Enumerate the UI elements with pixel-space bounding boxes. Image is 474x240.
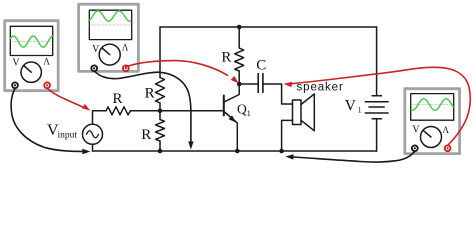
svg-text:Q: Q — [237, 101, 247, 116]
transistor Q1 collector lead — [225, 84, 240, 102]
battery V1 plates — [372, 95, 381, 97]
battery V1 bottom wire — [376, 119, 378, 151]
speaker cone — [301, 94, 314, 131]
transistor Q1 emitter lead — [225, 112, 238, 151]
speaker box — [293, 100, 302, 125]
wire speaker bottom to rail — [282, 120, 293, 151]
svg-text:R: R — [112, 91, 122, 107]
wire top rail — [160, 26, 377, 28]
svg-text:R: R — [221, 49, 231, 65]
battery V1 top wire — [376, 27, 378, 96]
svg-text:1: 1 — [358, 105, 362, 114]
oscilloscope M3 black terminal — [412, 145, 418, 151]
transistor Q1 base bar — [223, 96, 225, 116]
wire divider bottom — [159, 141, 161, 151]
transistor Q1 emitter arrow — [229, 115, 237, 122]
oscilloscope M2 screen — [89, 10, 131, 39]
wire V_input bottom — [92, 144, 94, 151]
svg-text:R: R — [145, 86, 155, 102]
svg-text:speaker: speaker — [297, 82, 344, 94]
wire V_input top to base — [93, 111, 107, 125]
M3 red probe wire — [292, 67, 471, 145]
resistor R collector zigzag — [235, 48, 244, 71]
M1 black probe wire — [11, 88, 83, 151]
oscilloscope M2 red terminal — [123, 65, 129, 71]
node dot top rail — [237, 25, 242, 30]
oscilloscope M2 knob — [99, 44, 120, 65]
oscilloscope M1 body — [5, 21, 59, 91]
svg-text:V: V — [12, 58, 20, 69]
oscilloscope M3 red terminal — [445, 145, 451, 151]
svg-text:V: V — [412, 125, 420, 136]
M3 black probe wire — [293, 151, 415, 162]
oscilloscope M2 screen midline — [90, 24, 131, 26]
svg-text:R: R — [141, 127, 151, 143]
wire divider middle — [159, 103, 161, 120]
oscilloscope M3 waveform — [411, 99, 453, 111]
svg-text:V: V — [345, 97, 357, 114]
oscilloscope M1 screen — [10, 26, 52, 55]
svg-text:Λ: Λ — [43, 56, 50, 66]
node dot speaker rail — [279, 149, 284, 154]
svg-text:1: 1 — [247, 108, 251, 118]
oscilloscope M1 knob — [21, 62, 41, 82]
wire capacitor to speaker — [263, 84, 293, 104]
oscilloscope M1 waveform — [10, 36, 52, 47]
svg-text:Λ: Λ — [443, 125, 450, 135]
wire series R to base — [131, 110, 224, 112]
oscilloscope M2 body — [79, 4, 139, 71]
source V_input circle — [83, 124, 103, 144]
wire bottom rail — [93, 150, 377, 152]
resistor R series zigzag — [106, 107, 131, 115]
source V_input sine symbol — [87, 131, 99, 138]
oscilloscope M2 black terminal — [91, 65, 97, 71]
M2 red probe wire — [126, 61, 228, 76]
oscilloscope M1 red terminal — [44, 82, 50, 88]
node dot divider bottom — [158, 149, 163, 154]
node dot emitter rail — [235, 149, 240, 154]
oscilloscope M3 knob — [421, 127, 442, 148]
oscilloscope M1 screen midline — [11, 41, 52, 43]
resistor R divider top zigzag — [156, 78, 165, 104]
node dot divider mid — [158, 109, 163, 114]
capacitor C wire from collector node — [239, 83, 258, 85]
oscilloscope M3 screen midline — [411, 103, 453, 105]
node dot collector — [237, 82, 242, 87]
svg-text:C: C — [256, 58, 266, 74]
oscilloscope M2 waveform — [90, 11, 131, 21]
wire left divider vertical top — [159, 27, 161, 78]
svg-text:Λ: Λ — [122, 42, 129, 52]
oscilloscope M3 body — [405, 89, 460, 154]
capacitor C plates — [257, 74, 259, 93]
M2 black probe wire — [94, 71, 191, 143]
resistor R divider bottom zigzag — [156, 120, 165, 142]
resistor R collector: wire from top rail — [238, 27, 240, 48]
wire collector resistor to node — [238, 71, 240, 84]
oscilloscope M3 screen — [411, 94, 454, 121]
M1 red probe wire — [47, 88, 85, 108]
oscilloscope M1 black terminal — [12, 82, 18, 88]
svg-text:input: input — [58, 131, 78, 141]
